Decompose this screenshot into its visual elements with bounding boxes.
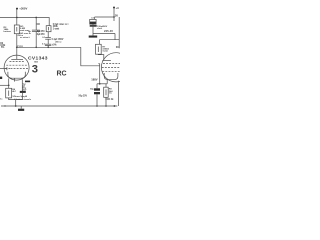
capacitor C8 plates bbox=[32, 29, 40, 31]
wire corner to LS box bbox=[94, 17, 96, 19]
wire right column bbox=[114, 34, 116, 40]
tube V2 anode bar bbox=[102, 59, 111, 61]
svg-text:elect: elect bbox=[97, 27, 102, 30]
capacitor C13 bar bbox=[94, 92, 100, 94]
wire C14 link bbox=[92, 24, 94, 35]
node dot bus right end bbox=[113, 16, 115, 18]
wire C9b to coupling row bbox=[47, 45, 49, 47]
wire right edge transformer bbox=[118, 17, 120, 48]
ground stub bbox=[20, 106, 22, 109]
tube V1 envelope bbox=[4, 55, 29, 80]
svg-text:1 watt: 1 watt bbox=[53, 28, 60, 31]
node dot +300 right bbox=[113, 7, 115, 9]
node dot cathode bbox=[8, 84, 10, 86]
wire screen row bbox=[99, 39, 119, 41]
svg-text:on retten ti: on retten ti bbox=[20, 36, 30, 39]
node dot bus right bbox=[114, 105, 116, 107]
wire coupling corner down bbox=[81, 47, 100, 66]
svg-text:131V: 131V bbox=[17, 44, 23, 48]
capacitor C12 bar bbox=[94, 88, 100, 90]
capacitor C14 top bar bbox=[90, 25, 97, 27]
wire V1 pin cathode left bbox=[8, 78, 10, 85]
svg-text:+300V: +300V bbox=[19, 6, 27, 10]
node dot bus at C8 bbox=[35, 17, 37, 19]
node dot coupling C9 bbox=[47, 46, 49, 48]
node dot anode junction bbox=[16, 46, 18, 48]
wire +300V tap bbox=[16, 9, 18, 18]
capacitor C9b plates bbox=[45, 43, 51, 45]
node dot V2 cathode junction bbox=[99, 83, 101, 85]
wire C8 branch bbox=[35, 18, 37, 31]
wire R5 to C9a bbox=[47, 32, 49, 38]
wire drop to ground bus bbox=[15, 100, 17, 106]
svg-text:CV1343: CV1343 bbox=[28, 55, 48, 61]
svg-text:25V: 25V bbox=[22, 89, 26, 91]
wire V1 pin right bbox=[21, 79, 23, 91]
wire R8 to ground bbox=[105, 97, 107, 106]
wire dot to R4 bbox=[8, 85, 10, 88]
svg-text:8μF450: 8μF450 bbox=[37, 30, 46, 33]
wire V2 right leg bbox=[117, 81, 119, 106]
wire below C8 bbox=[35, 32, 37, 48]
node dot ground left bbox=[15, 105, 17, 107]
capacitor C9a plates bbox=[45, 37, 51, 39]
wire V1 pin heater bbox=[13, 78, 15, 81]
wire coupling row bbox=[17, 46, 81, 48]
node dot coupling C8 bbox=[35, 46, 37, 48]
resistor R4 body bbox=[6, 88, 12, 98]
svg-text:+3: +3 bbox=[116, 6, 120, 10]
capacitor bar B bbox=[20, 91, 26, 93]
wire caps to ground bbox=[96, 94, 98, 106]
node dot ground caps bbox=[96, 105, 98, 107]
svg-text:1watt: 1watt bbox=[102, 50, 108, 53]
terminal black left edge bbox=[0, 77, 2, 79]
svg-text:50μ: 50μ bbox=[90, 89, 94, 91]
wire bus to R1 bbox=[16, 18, 18, 26]
svg-text:RC: RC bbox=[57, 70, 67, 77]
tube V1 cathode cup bbox=[8, 72, 25, 79]
wire R8 feed bbox=[105, 84, 107, 87]
svg-text:3: 3 bbox=[32, 63, 38, 75]
wire R7 to V2 anode bbox=[98, 54, 104, 60]
wire 245V row bbox=[93, 33, 115, 35]
resistor R1 body bbox=[14, 25, 19, 34]
LS box body bbox=[90, 19, 96, 24]
wire V1 grid lead bbox=[0, 68, 7, 70]
tube V2 cathode cup bbox=[104, 73, 118, 80]
svg-text:CRC 4k: CRC 4k bbox=[105, 98, 114, 101]
wire C9a to C9b bbox=[47, 39, 49, 44]
resistor R8 body bbox=[104, 87, 109, 97]
svg-text:bottom: bottom bbox=[4, 30, 11, 33]
wire bar B down bbox=[22, 93, 24, 100]
wire V2 cathode leg bbox=[106, 80, 108, 84]
svg-text:30: 30 bbox=[115, 14, 119, 18]
svg-text:2μF450: 2μF450 bbox=[37, 33, 46, 36]
wire R1 to V1 anode bbox=[16, 34, 18, 60]
svg-text:188V: 188V bbox=[91, 78, 97, 82]
wire grid leak down bbox=[99, 64, 101, 84]
svg-text:5%: 5% bbox=[1, 47, 4, 49]
wire HT bus top left bbox=[0, 18, 49, 26]
capacitor C14 bottom bar bbox=[89, 36, 98, 38]
tube V2 grid dashes bbox=[103, 63, 120, 65]
wire screen to R7 bbox=[98, 40, 100, 45]
tube V1 anode bar bbox=[11, 58, 23, 60]
resistor R5 body bbox=[46, 26, 51, 32]
wire cathode row V2 bbox=[97, 83, 107, 85]
tube V2 envelope bbox=[101, 53, 130, 82]
node dot ground R8 bbox=[105, 105, 107, 107]
tube V1 grid dashes bbox=[10, 60, 25, 62]
node dot +300V bbox=[16, 8, 18, 10]
svg-text:245-4V: 245-4V bbox=[104, 29, 113, 33]
svg-text:6 bottom travels: 6 bottom travels bbox=[14, 98, 32, 101]
wire cathode row left bbox=[0, 84, 9, 86]
wire ground bus bbox=[1, 105, 117, 107]
wire HT bus right bbox=[95, 16, 115, 18]
node dot bus at R1 bbox=[16, 17, 18, 19]
svg-text:1w: 1w bbox=[109, 93, 112, 95]
svg-text:±5%: ±5% bbox=[52, 45, 57, 47]
wire caps branch bbox=[96, 84, 98, 89]
wire +300 right tap bbox=[113, 8, 115, 22]
node dot ground far left bbox=[4, 105, 5, 106]
svg-text:7V: 7V bbox=[23, 84, 26, 87]
resistor R7 body bbox=[96, 44, 102, 54]
wire V2 grid stub bbox=[98, 63, 99, 65]
wire R4 bottom bbox=[9, 98, 23, 100]
svg-text:250 se: 250 se bbox=[55, 41, 62, 43]
ground bar bbox=[18, 109, 24, 111]
svg-text:50μ 25V: 50μ 25V bbox=[79, 96, 88, 98]
svg-text:5Ωmax 9payB: 5Ωmax 9payB bbox=[13, 96, 28, 98]
capacitor bar A bbox=[25, 81, 30, 83]
